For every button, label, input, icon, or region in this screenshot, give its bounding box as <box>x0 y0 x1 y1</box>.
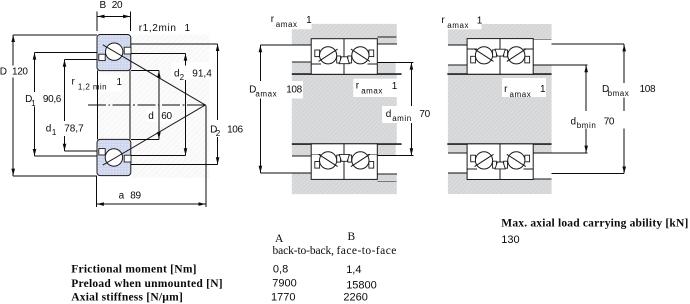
svg-text:7900: 7900 <box>272 277 296 289</box>
svg-text:B: B <box>348 231 356 243</box>
svg-text:amax: amax <box>510 90 532 99</box>
svg-text:1: 1 <box>117 77 123 88</box>
svg-text:0,8: 0,8 <box>273 263 288 275</box>
svg-text:Max. axial load carrying abili: Max. axial load carrying ability [kN] <box>501 218 688 230</box>
svg-text:amax: amax <box>447 21 469 30</box>
svg-text:a: a <box>119 190 125 201</box>
svg-text:D: D <box>0 67 7 78</box>
svg-text:r1,2min: r1,2min <box>139 23 177 34</box>
svg-text:1: 1 <box>306 15 312 26</box>
svg-text:1,4: 1,4 <box>346 264 361 276</box>
svg-text:2: 2 <box>180 73 185 82</box>
svg-text:15800: 15800 <box>346 280 377 292</box>
svg-text:amin: amin <box>392 114 412 123</box>
svg-text:A: A <box>275 233 284 245</box>
svg-text:d: d <box>386 109 392 120</box>
svg-text:60: 60 <box>161 111 172 122</box>
svg-text:1: 1 <box>52 128 57 137</box>
svg-text:108: 108 <box>286 85 302 96</box>
svg-text:106: 106 <box>227 124 243 135</box>
svg-text:bmin: bmin <box>577 121 597 130</box>
svg-text:d: d <box>571 117 577 128</box>
svg-text:120: 120 <box>12 67 28 78</box>
svg-text:1770: 1770 <box>271 292 295 304</box>
svg-text:2260: 2260 <box>343 292 367 304</box>
svg-text:B: B <box>100 0 107 11</box>
svg-text:amax: amax <box>361 87 383 96</box>
svg-text:90,6: 90,6 <box>43 94 62 105</box>
svg-text:130: 130 <box>501 234 519 246</box>
svg-text:1: 1 <box>540 84 546 95</box>
svg-text:1: 1 <box>185 23 191 34</box>
svg-text:1: 1 <box>477 16 483 27</box>
svg-text:108: 108 <box>640 84 656 95</box>
svg-text:78,7: 78,7 <box>64 124 84 135</box>
svg-text:2: 2 <box>216 129 221 138</box>
svg-text:d: d <box>148 111 154 122</box>
svg-text:20: 20 <box>112 0 123 11</box>
svg-text:Preload when unmounted [N]: Preload when unmounted [N] <box>71 278 222 290</box>
svg-text:1: 1 <box>392 81 398 92</box>
svg-text:amax: amax <box>276 20 298 29</box>
svg-text:70: 70 <box>419 109 430 120</box>
svg-text:amax: amax <box>255 90 277 99</box>
svg-text:91,4: 91,4 <box>192 68 212 79</box>
svg-text:d: d <box>46 124 52 135</box>
svg-text:70: 70 <box>604 117 615 128</box>
svg-text:89: 89 <box>130 190 141 201</box>
svg-text:1: 1 <box>31 99 36 108</box>
svg-text:face-to-face: face-to-face <box>337 245 397 257</box>
svg-text:Frictional moment [Nm]: Frictional moment [Nm] <box>71 264 196 276</box>
svg-text:Axial stiffness [N/µm]: Axial stiffness [N/µm] <box>71 292 183 304</box>
svg-text:1,2 min: 1,2 min <box>78 82 107 91</box>
svg-text:bmax: bmax <box>608 89 630 98</box>
svg-text:back-to-back,: back-to-back, <box>273 245 335 257</box>
